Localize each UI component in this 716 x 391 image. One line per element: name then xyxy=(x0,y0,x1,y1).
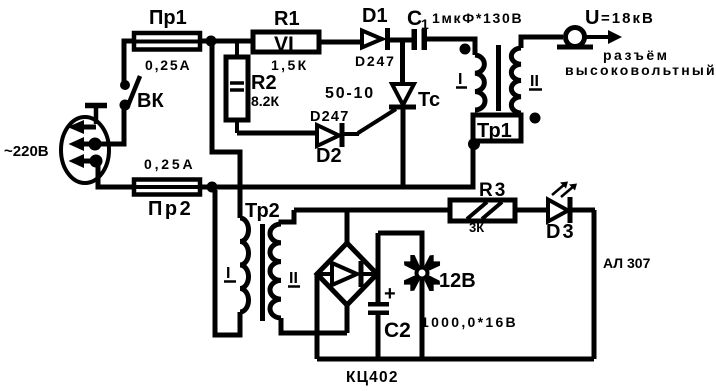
svg-text:D2: D2 xyxy=(316,145,342,167)
plug pin N arrow + node xyxy=(69,154,103,168)
svg-text:R2: R2 xyxy=(251,72,277,94)
sub-box top rail xyxy=(378,233,422,266)
rail to R3 xyxy=(294,208,450,213)
resistor R3 xyxy=(450,200,515,221)
wire bridge left vertex down xyxy=(315,274,320,359)
transformer Tr2 secondary winding xyxy=(270,210,347,333)
label U=18kV xyxy=(585,7,655,29)
transformer Tr1 core xyxy=(496,45,501,111)
svg-text:1,5К: 1,5К xyxy=(271,57,309,73)
label Tc xyxy=(418,89,440,111)
label D1 xyxy=(362,5,388,27)
gate wire D2 to Tc xyxy=(358,109,396,133)
LED D3 arrows xyxy=(552,182,577,198)
svg-text:12В: 12В xyxy=(439,270,476,292)
label 12V xyxy=(439,270,476,292)
label VK xyxy=(137,90,164,112)
svg-text:I: I xyxy=(226,265,230,282)
svg-text:8.2К: 8.2К xyxy=(251,93,279,109)
plug earth pin xyxy=(68,105,108,134)
label C2 xyxy=(384,319,411,342)
label D247 under D1 xyxy=(355,53,396,69)
label I Tr2 xyxy=(224,265,236,282)
svg-text:50-10: 50-10 xyxy=(325,85,375,102)
label 3K xyxy=(469,220,484,235)
svg-text:+: + xyxy=(384,283,396,305)
label KC402 xyxy=(346,369,399,386)
svg-text:3К: 3К xyxy=(469,220,484,235)
svg-text:Тр1: Тр1 xyxy=(477,120,512,142)
svg-text:Пр1: Пр1 xyxy=(149,7,187,29)
Tr1 box xyxy=(473,115,521,141)
label plus xyxy=(384,283,396,305)
svg-text:D247: D247 xyxy=(310,109,349,125)
svg-text:1000,0*16В: 1000,0*16В xyxy=(421,314,518,330)
bridge rectifier KC402 xyxy=(317,243,377,305)
svg-text:~220В: ~220В xyxy=(4,143,49,160)
wire bridge bottom vertex down xyxy=(345,305,350,333)
label 1000,0*16V xyxy=(421,314,518,330)
svg-text:U: U xyxy=(585,7,599,29)
switch VK xyxy=(120,76,141,111)
label vysokovoltny xyxy=(565,62,716,78)
resistor R1 xyxy=(253,32,319,52)
label II Tr2 xyxy=(288,270,300,287)
label 0,25A fuse2 xyxy=(144,156,195,172)
capacitor C1 xyxy=(412,29,428,50)
bottom rail xyxy=(317,357,594,362)
svg-text:R3: R3 xyxy=(479,180,507,201)
label 1,5K xyxy=(271,57,309,73)
rail Pr2 to Tr1 xyxy=(200,147,473,187)
plug X1 ~220V ellipse xyxy=(61,117,109,183)
svg-text:=18кВ: =18кВ xyxy=(601,10,655,27)
diode D2 xyxy=(317,123,359,147)
wire D1 to C1 xyxy=(387,38,412,43)
svg-text:D3: D3 xyxy=(546,221,576,243)
svg-text:0,25А: 0,25А xyxy=(145,57,191,73)
label 8.2K xyxy=(251,93,279,109)
label VI inside R1 xyxy=(274,33,294,56)
wire rail to bridge top xyxy=(345,210,350,245)
svg-text:высоковольтный: высоковольтный xyxy=(565,62,716,78)
lamp 12V xyxy=(402,253,442,359)
node B dot xyxy=(207,182,218,193)
label 0,25A xyxy=(145,57,191,73)
fuse Pr1 xyxy=(134,33,200,50)
label Pr2 xyxy=(148,198,193,220)
svg-text:0,25А: 0,25А xyxy=(144,156,195,172)
label R1 xyxy=(274,8,300,30)
fuse Pr2 xyxy=(134,180,200,195)
svg-text:разъём: разъём xyxy=(603,47,669,63)
label R3 xyxy=(479,180,507,201)
transformer Tr2 primary winding xyxy=(215,190,249,335)
svg-text:Тс: Тс xyxy=(418,89,440,111)
svg-text:II: II xyxy=(530,73,539,90)
wire pin N to fuse Pr2 xyxy=(96,161,134,187)
svg-text:АЛ 307: АЛ 307 xyxy=(603,255,651,271)
svg-text:C2: C2 xyxy=(384,319,411,342)
label Tp1 xyxy=(477,120,512,142)
svg-text:ВК: ВК xyxy=(137,90,164,112)
svg-text:1мкФ*130В: 1мкФ*130В xyxy=(432,10,523,26)
svg-text:VI: VI xyxy=(274,33,294,56)
wire node to thyristor xyxy=(400,40,405,86)
wire C1 to Tr1 xyxy=(427,39,475,55)
wire R2 to D2 xyxy=(237,131,317,136)
label II Tr1 xyxy=(529,73,542,90)
transformer Tr1 winding II xyxy=(511,37,563,124)
svg-text:1: 1 xyxy=(421,16,429,32)
label AL307 xyxy=(603,255,651,271)
wire fuse to R1 xyxy=(200,39,253,44)
plug pin L arrow + node xyxy=(69,137,102,151)
thyristor Tc xyxy=(389,84,416,187)
capacitor C2 xyxy=(368,274,389,359)
svg-text:C: C xyxy=(407,7,422,30)
label D247 above D2 xyxy=(310,109,349,125)
svg-text:R1: R1 xyxy=(274,8,300,30)
label D2 xyxy=(316,145,342,167)
svg-text:I: I xyxy=(458,71,462,88)
svg-text:II: II xyxy=(289,270,298,287)
wire switch to fuse Pr1 xyxy=(124,41,134,85)
hv connector xyxy=(557,28,622,48)
svg-text:КЦ402: КЦ402 xyxy=(346,369,399,386)
label D3 xyxy=(546,221,576,243)
wire R3 to D3 xyxy=(515,208,548,213)
transformer Tr2 core xyxy=(260,224,265,321)
label C1 xyxy=(407,7,429,32)
label Pr1 xyxy=(149,7,187,29)
svg-text:D247: D247 xyxy=(355,53,396,69)
label ~220V xyxy=(4,143,49,160)
label Tp2 xyxy=(245,200,280,222)
node A dot xyxy=(206,36,217,47)
label R2 xyxy=(251,72,277,94)
wire node A down and jog to Tr2 primary xyxy=(212,41,240,218)
label 1mkF*130V xyxy=(432,10,523,26)
label I Tr1 xyxy=(456,71,467,88)
svg-text:D1: D1 xyxy=(362,5,388,27)
svg-text:Тр2: Тр2 xyxy=(245,200,280,222)
label 50-10 xyxy=(325,85,375,102)
wire C2 up to sub-box xyxy=(376,233,381,274)
label razyom xyxy=(603,47,669,63)
diode D1 xyxy=(362,28,388,50)
svg-text:Пр2: Пр2 xyxy=(148,198,193,220)
LED D3 xyxy=(548,197,595,223)
node Tr1 bottom dot xyxy=(468,138,480,150)
transformer Tr1 winding I xyxy=(460,44,486,111)
resistor R2 xyxy=(226,43,248,133)
wire D3 down to bottom rail xyxy=(592,210,597,359)
wire pin L to switch xyxy=(95,109,124,144)
wire R1 to D1 xyxy=(319,40,362,45)
